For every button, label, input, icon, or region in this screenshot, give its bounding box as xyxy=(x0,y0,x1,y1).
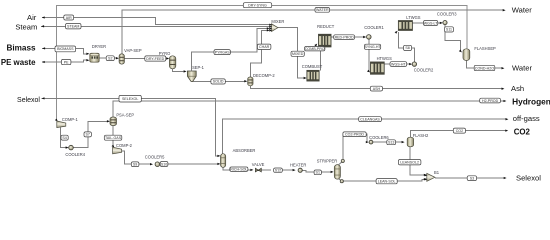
svg-text:REDUCT: REDUCT xyxy=(317,24,335,29)
svg-text:HTWGS: HTWGS xyxy=(377,56,393,61)
svg-text:VAP-SEP: VAP-SEP xyxy=(124,48,142,53)
svg-text:DECOMP-2: DECOMP-2 xyxy=(253,73,275,78)
svg-text:RED-PROD: RED-PROD xyxy=(335,35,355,39)
svg-text:PE waste: PE waste xyxy=(1,58,36,67)
svg-text:SYNG-HT: SYNG-HT xyxy=(364,45,381,49)
svg-text:PSA-SEP: PSA-SEP xyxy=(116,112,134,117)
svg-text:S8: S8 xyxy=(405,46,409,50)
svg-text:LEAN-SOL: LEAN-SOL xyxy=(378,179,396,183)
svg-text:B1: B1 xyxy=(434,170,440,175)
svg-text:COMB-PRO: COMB-PRO xyxy=(305,47,325,51)
svg-text:PYRO: PYRO xyxy=(159,51,171,56)
svg-text:S13: S13 xyxy=(388,141,394,145)
svg-text:COOLER3: COOLER3 xyxy=(437,11,457,16)
svg-text:Hydrogen: Hydrogen xyxy=(512,97,550,107)
svg-text:COOLER6: COOLER6 xyxy=(369,135,389,140)
svg-text:Steam: Steam xyxy=(15,23,37,32)
svg-text:DRY-FEED: DRY-FEED xyxy=(146,57,164,61)
svg-text:Bimass: Bimass xyxy=(6,44,36,53)
svg-text:Selexol: Selexol xyxy=(516,173,541,182)
svg-text:LEANSOL2: LEANSOL2 xyxy=(400,160,419,164)
svg-text:COMBUST: COMBUST xyxy=(302,64,323,69)
svg-text:COMP-1: COMP-1 xyxy=(62,117,79,122)
svg-text:Water: Water xyxy=(512,6,532,15)
svg-text:Water: Water xyxy=(512,64,532,73)
svg-text:COOLER1: COOLER1 xyxy=(364,25,384,30)
svg-text:MIXED: MIXED xyxy=(292,52,304,56)
svg-text:SELEXOL: SELEXOL xyxy=(122,97,138,101)
svg-text:S1: S1 xyxy=(316,171,320,175)
svg-text:WATER: WATER xyxy=(316,8,329,12)
svg-text:WGS-HT: WGS-HT xyxy=(391,62,406,66)
svg-text:CHAR: CHAR xyxy=(259,45,270,49)
svg-text:COND-H2O: COND-H2O xyxy=(475,66,494,70)
svg-text:AIR: AIR xyxy=(66,16,72,20)
svg-text:CO2: CO2 xyxy=(514,127,531,136)
svg-text:TAIL-GAS: TAIL-GAS xyxy=(105,136,122,140)
svg-text:DRY-SYNG: DRY-SYNG xyxy=(248,3,267,7)
svg-text:S11: S11 xyxy=(446,28,452,32)
svg-text:PE: PE xyxy=(64,60,69,64)
svg-text:STRIPPER: STRIPPER xyxy=(317,158,338,163)
svg-text:Ash: Ash xyxy=(511,84,524,93)
svg-text:MIXER: MIXER xyxy=(271,19,284,24)
svg-text:HEATER: HEATER xyxy=(290,163,306,168)
svg-text:S2: S2 xyxy=(108,56,112,60)
svg-text:COOLER2: COOLER2 xyxy=(414,67,434,72)
svg-text:S7: S7 xyxy=(85,133,89,137)
svg-text:S3: S3 xyxy=(470,176,474,180)
svg-text:RICH-SOL: RICH-SOL xyxy=(230,167,247,171)
svg-text:CO2-PROD: CO2-PROD xyxy=(345,133,364,137)
svg-text:FLASHSEP: FLASHSEP xyxy=(474,46,496,51)
svg-text:H2-PROD: H2-PROD xyxy=(482,99,499,103)
svg-text:BIOMASS: BIOMASS xyxy=(57,47,74,51)
svg-text:ASH: ASH xyxy=(373,87,381,91)
svg-text:FLASH2: FLASH2 xyxy=(413,133,429,138)
svg-text:CLEANGAS: CLEANGAS xyxy=(360,117,380,121)
svg-text:COOLER4: COOLER4 xyxy=(65,152,85,157)
svg-text:off-gass: off-gass xyxy=(513,114,540,123)
svg-text:ABSORBER: ABSORBER xyxy=(233,148,256,153)
svg-text:WGS-LT: WGS-LT xyxy=(424,21,439,25)
svg-text:CO2: CO2 xyxy=(456,129,463,133)
svg-text:VALVE: VALVE xyxy=(252,162,265,167)
svg-text:S10: S10 xyxy=(161,162,167,166)
svg-text:PYRGAS: PYRGAS xyxy=(215,50,231,54)
svg-text:S9: S9 xyxy=(133,163,137,167)
svg-text:SOLID: SOLID xyxy=(213,80,224,84)
svg-text:Selexol: Selexol xyxy=(17,97,40,104)
svg-text:COMP-2: COMP-2 xyxy=(116,143,133,148)
svg-text:SEP-1: SEP-1 xyxy=(192,65,205,70)
svg-text:COOLER5: COOLER5 xyxy=(145,155,165,160)
svg-text:LTWGS: LTWGS xyxy=(406,15,421,20)
svg-text:DRYER: DRYER xyxy=(92,44,106,49)
svg-text:S4: S4 xyxy=(62,136,66,140)
svg-text:STEAM: STEAM xyxy=(67,24,79,28)
svg-text:S12: S12 xyxy=(275,168,281,172)
svg-text:Air: Air xyxy=(27,13,37,22)
